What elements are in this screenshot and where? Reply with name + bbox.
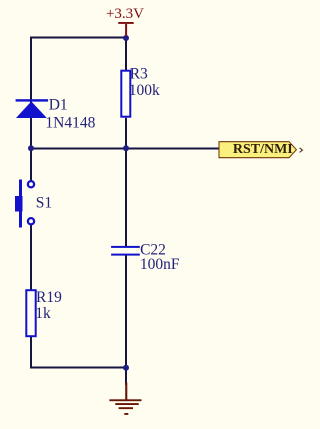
svg-text:100nF: 100nF [140, 256, 180, 273]
svg-text:R19: R19 [36, 289, 62, 306]
svg-text:1k: 1k [35, 305, 51, 322]
svg-text:1N4148: 1N4148 [45, 115, 95, 132]
svg-text:S1: S1 [36, 195, 52, 212]
svg-text:+3.3V: +3.3V [106, 6, 144, 22]
svg-text:100k: 100k [129, 82, 160, 99]
svg-text:R3: R3 [130, 66, 148, 83]
svg-text:RST/NMI: RST/NMI [233, 142, 293, 157]
svg-text:D1: D1 [49, 96, 68, 113]
